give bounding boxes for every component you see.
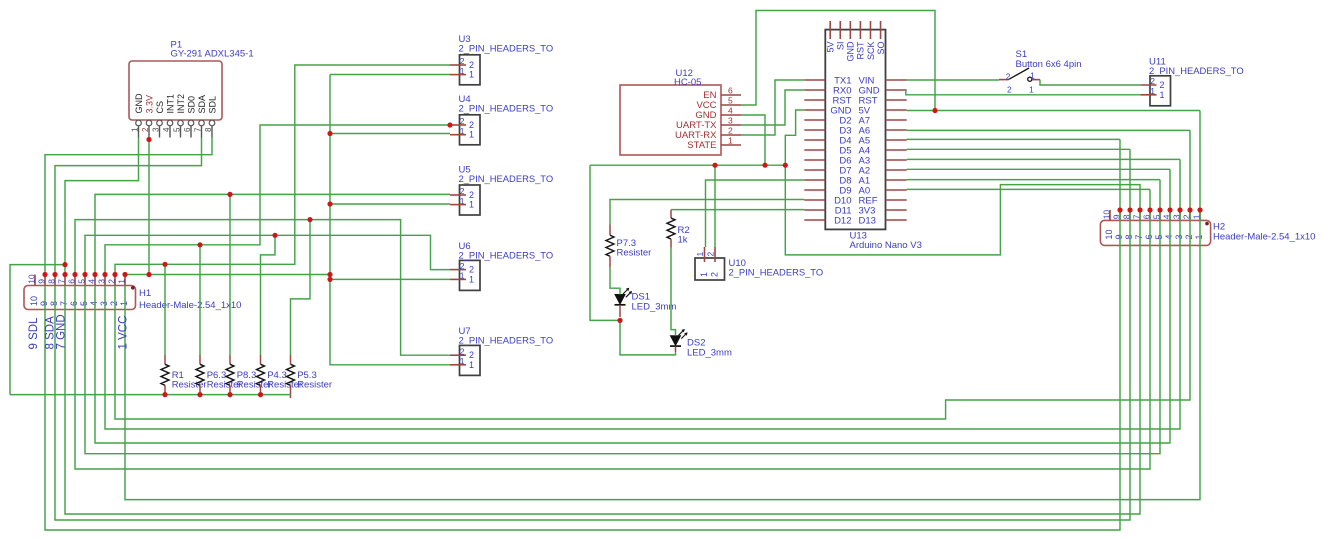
svg-text:Button 6x6 4pin: Button 6x6 4pin: [1016, 59, 1082, 70]
wire bus H1 pin6 to H2 pin6 (A0 net): [75, 189, 1150, 469]
svg-text:4: 4: [1164, 234, 1174, 239]
wire bus H1 pin3 to H2 pin3 (A3 net): [105, 159, 1180, 429]
wire DS1 cathode to DS2 cathode: [620, 320, 676, 355]
connector H1 Header-Male-2.54_1x10 body: [24, 286, 136, 310]
wire D8 row to U10 pin1: [706, 180, 805, 247]
svg-text:1: 1: [1160, 90, 1165, 100]
resistor P6.3: [199, 355, 201, 364]
svg-text:3: 3: [1174, 234, 1184, 239]
svg-text:2: 2: [1150, 76, 1155, 86]
wire A5 row to H2 pin9: [907, 138, 1120, 140]
wire R1 top to H1 pin2 net: [164, 264, 166, 355]
wire bus H1 pin2 to H2 pin2 (A6 net) with step: [115, 130, 1190, 419]
svg-text:9: 9: [39, 301, 49, 306]
svg-text:D12: D12: [834, 215, 851, 226]
svg-text:1: 1: [117, 279, 127, 284]
svg-text:1: 1: [460, 66, 465, 76]
H2 pin 3 stub: [1179, 210, 1181, 220]
junction: [146, 272, 151, 277]
junction: [762, 163, 767, 168]
U13 left pin TX1 stub: [804, 79, 825, 81]
svg-text:8: 8: [47, 279, 57, 284]
svg-text:2_PIN_HEADERS_TO: 2_PIN_HEADERS_TO: [729, 267, 824, 278]
connector U10 2_PIN_HEADERS_TO body: [695, 258, 725, 280]
U13 right pin A5 stub: [886, 139, 907, 141]
svg-text:1: 1: [695, 252, 705, 257]
svg-text:2: 2: [1184, 234, 1194, 239]
wire HC-05 VCC to 5V top bus: [741, 11, 935, 111]
U13 left pin D2 stub: [804, 119, 825, 121]
P1 pin 1 circle and stub: [136, 120, 142, 126]
svg-text:10: 10: [1104, 229, 1114, 239]
junction: [447, 122, 452, 127]
svg-text:1: 1: [469, 70, 474, 80]
U13 top pin SO stub: [880, 21, 882, 39]
junction: [307, 217, 312, 222]
junction H2 pin 2: [1187, 207, 1192, 212]
junction: [102, 272, 107, 277]
U13 right pin D13 stub: [886, 219, 907, 221]
junction H2 pin 5: [1157, 207, 1162, 212]
svg-text:5V: 5V: [826, 42, 836, 53]
junction H2 pin 3: [1177, 207, 1182, 212]
U12 pin 1 STATE stub: [721, 144, 741, 146]
U6 pin 1 stub: [450, 278, 466, 280]
svg-text:GND: GND: [846, 41, 856, 62]
junction: [62, 262, 67, 267]
U10 pin 2 stub: [714, 247, 716, 262]
junction: [146, 137, 151, 142]
wire GND line y=165: [590, 164, 785, 166]
svg-text:9: 9: [1114, 234, 1124, 239]
svg-text:2_PIN_HEADERS_TO: 2_PIN_HEADERS_TO: [459, 335, 554, 346]
wire GND line left drop to LED bottoms: [590, 165, 620, 320]
svg-text:GND: GND: [134, 93, 144, 114]
H1 pin 2 stub: [114, 275, 116, 286]
junction H2 pin 7: [1137, 207, 1142, 212]
svg-text:2: 2: [1160, 80, 1165, 90]
junction: [162, 392, 167, 397]
junction: [783, 163, 788, 168]
svg-text:7: 7: [1134, 234, 1144, 239]
svg-text:6: 6: [67, 279, 77, 284]
svg-text:3: 3: [99, 301, 109, 306]
H1 pin 10 stub: [34, 275, 36, 286]
svg-text:1: 1: [1029, 84, 1034, 94]
wire P1 pin1 GND to H1 pin7: [65, 138, 139, 275]
svg-text:5: 5: [77, 279, 87, 284]
svg-text:2: 2: [469, 190, 474, 200]
svg-text:1: 1: [1030, 70, 1035, 80]
wire D11 row to R2: [671, 209, 804, 211]
svg-text:SI: SI: [836, 42, 846, 51]
svg-text:1: 1: [469, 274, 474, 284]
svg-text:2: 2: [709, 272, 719, 277]
wire P5.3 top jog to H1 pin6 net: [291, 220, 311, 355]
svg-text:STATE: STATE: [687, 140, 716, 151]
U13 right pin A0 stub: [886, 189, 907, 191]
wire R2 bottom to DS2 anode: [671, 248, 676, 336]
junction H2 pin 8: [1127, 207, 1132, 212]
svg-text:Resister: Resister: [297, 379, 332, 390]
wire U3 pin1: [330, 74, 450, 76]
svg-text:2_PIN_HEADERS_TO: 2_PIN_HEADERS_TO: [459, 103, 554, 114]
svg-text:1: 1: [460, 271, 465, 281]
svg-text:HC-05: HC-05: [674, 77, 701, 88]
wire H1 pin3 to U4 pin2: [105, 125, 450, 275]
junction: [42, 272, 47, 277]
wire VIN row to S1: [907, 79, 999, 81]
H2 pin 2 stub: [1189, 210, 1191, 220]
svg-text:2: 2: [728, 126, 733, 136]
svg-text:8: 8: [1124, 234, 1134, 239]
H1 pin 6 stub: [74, 275, 76, 286]
junction: [82, 272, 87, 277]
U5 pin 1 stub: [450, 204, 466, 206]
P1 pin 6 circle and stub: [188, 120, 194, 126]
U12 pin 3 UART-TX stub: [721, 124, 741, 126]
wire resistor-row GND bus to R1..P5.3: [10, 394, 291, 396]
wire bus H1 pin8 to H2 pin8 (A4 net): [55, 149, 1130, 520]
svg-text:6: 6: [728, 86, 733, 96]
U13 right pin VIN stub: [886, 79, 907, 81]
connector U11 2_PIN_HEADERS_TO body: [1150, 76, 1171, 106]
svg-text:2: 2: [706, 252, 716, 257]
svg-text:2: 2: [1006, 71, 1011, 81]
svg-text:1: 1: [119, 301, 129, 306]
wire A2 row to H2 pin4: [907, 168, 1170, 170]
svg-text:Header-Male-2.54_1x10: Header-Male-2.54_1x10: [139, 300, 241, 311]
module U12 HC-05 body: [620, 85, 721, 155]
switch S1 Button 6x6 4pin: [999, 79, 1009, 81]
svg-text:2: 2: [469, 265, 474, 275]
junction: [712, 163, 717, 168]
resistor P8.3: [229, 355, 231, 364]
wire to U6 pin1: [330, 278, 450, 280]
wire U13 GND left jog down to GND line: [785, 110, 804, 165]
svg-text:1: 1: [728, 136, 733, 146]
junction: [52, 272, 57, 277]
svg-text:1: 1: [1194, 234, 1204, 239]
U13 right pin 3V3 stub: [886, 209, 907, 211]
U4 pin 1 stub: [450, 134, 466, 136]
wire bus H1 pin9 to H2 pin9 (A5 net): [45, 139, 1120, 530]
junction H2 pin 1: [1197, 207, 1202, 212]
wire H1 pin5 to U6 pin2: [85, 235, 450, 274]
wire H1 pin1 VCC right along pins-top: [125, 274, 330, 276]
U3 pin 2 stub: [450, 64, 466, 66]
U13 top pin RST stub: [859, 21, 861, 39]
U13 top pin GND stub: [849, 21, 851, 39]
U12 pin 5 VCC stub: [721, 104, 741, 106]
U13 top pin 5V stub: [829, 21, 831, 39]
junction: [112, 272, 117, 277]
wire bus H1 pin4 to H2 pin4 (A2 net): [95, 169, 1170, 443]
wire U5 pin1: [330, 203, 450, 205]
wire H1 pin6 to U7 pin2: [75, 220, 450, 356]
svg-text:SD0: SD0: [187, 96, 197, 114]
svg-text:GY-291 ADXL345-1: GY-291 ADXL345-1: [171, 49, 254, 60]
connector U3 2_PIN_HEADERS_TO body: [460, 55, 481, 85]
svg-text:9: 9: [37, 279, 47, 284]
svg-text:1: 1: [460, 196, 465, 206]
wire A0 row to H2 pin6: [907, 188, 1150, 190]
svg-text:5: 5: [79, 301, 89, 306]
wire P1 pin2 3.3V down to H1 pins-top line: [148, 138, 150, 275]
wire HC-05 UART-RX to TX1: [741, 80, 804, 135]
wire U4 pin1: [330, 133, 450, 135]
svg-text:LED_3mm: LED_3mm: [632, 302, 677, 313]
svg-text:2: 2: [469, 60, 474, 70]
resistor R1: [164, 355, 166, 364]
wire HC-05 GND down to GND line: [741, 115, 765, 165]
wire P1 pin7 SDA to H1 pin8: [55, 138, 202, 275]
svg-text:10: 10: [1102, 210, 1112, 220]
U13 right pin A2 stub: [886, 169, 907, 171]
svg-text:Arduino Nano V3: Arduino Nano V3: [850, 240, 922, 251]
junction: [932, 108, 937, 113]
H2 pin 4 stub: [1169, 210, 1171, 220]
wire bus vertical x=330 U3/U4/U5/U7 pin1 net: [330, 75, 450, 365]
U11 pin 2 stub: [1140, 84, 1156, 86]
svg-text:7 GND: 7 GND: [56, 314, 68, 349]
svg-text:7: 7: [59, 301, 69, 306]
H1 pin 9 stub: [44, 275, 46, 286]
svg-text:3: 3: [97, 279, 107, 284]
connector H2 Header-Male-2.54_1x10 body: [1100, 220, 1210, 245]
svg-text:1: 1: [1150, 86, 1155, 96]
H1 pin 4 stub: [94, 275, 96, 286]
svg-text:8: 8: [49, 301, 59, 306]
junction: [72, 272, 77, 277]
svg-text:2: 2: [469, 120, 474, 130]
U12 pin 6 EN stub: [721, 94, 741, 96]
wire A6 row to H2 pin2: [907, 129, 1190, 131]
svg-text:2: 2: [107, 279, 117, 284]
junction: [272, 233, 277, 238]
P5.3 bottom stub below bus: [290, 395, 292, 398]
U13 top pin SCK stub: [869, 21, 871, 39]
H2 pin 5 stub: [1159, 210, 1161, 220]
svg-text:2_PIN_HEADERS_TO: 2_PIN_HEADERS_TO: [459, 43, 554, 54]
junction: [227, 392, 232, 397]
U13 left pin RST stub: [804, 99, 825, 101]
U13 right pin REF stub: [886, 199, 907, 201]
U13 left pin D10 stub: [804, 199, 825, 201]
svg-text:Header-Male-2.54_1x10: Header-Male-2.54_1x10: [1213, 232, 1315, 243]
svg-text:1: 1: [460, 126, 465, 136]
svg-text:6: 6: [69, 301, 79, 306]
svg-text:2: 2: [460, 346, 465, 356]
svg-text:1: 1: [460, 356, 465, 366]
P1 pin 3 circle and stub: [157, 120, 163, 126]
U13 left pin GND stub: [804, 109, 825, 111]
svg-text:SO: SO: [876, 42, 886, 55]
wire P8.3 top to H1 pin4 net: [229, 194, 231, 355]
junction: [197, 242, 202, 247]
svg-text:1: 1: [469, 200, 474, 210]
H2 pin 9 stub: [1119, 210, 1121, 220]
junction: [162, 262, 167, 267]
U13 right pin A4 stub: [886, 149, 907, 151]
module P1 GY-291 ADXL345-1 body: [129, 61, 222, 120]
U13 right pin A1 stub: [886, 179, 907, 181]
H2 pin 6 stub: [1149, 210, 1151, 220]
wire A1 row to H2 pin5: [907, 179, 1160, 181]
H1 pin 1 marker dot: [131, 286, 135, 290]
junction: [617, 318, 622, 323]
led DS2 LED_3mm: [671, 336, 681, 346]
wire bus H1 pin1 to H2 pin1 (VCC net): [125, 111, 1200, 500]
connector U4 2_PIN_HEADERS_TO body: [460, 115, 481, 145]
P1 pin 2 circle and stub: [146, 120, 152, 126]
wire P6.3 top to H1 pin3 net: [199, 245, 201, 355]
U13 left pin D8 stub: [804, 179, 825, 181]
svg-text:1: 1: [469, 360, 474, 370]
resistor P5.3: [290, 355, 292, 364]
U13 left pin D4 stub: [804, 139, 825, 141]
U3 pin 1 stub: [450, 74, 466, 76]
U11 pin 1 stub: [1140, 94, 1156, 96]
wire A4 row to H2 pin8: [907, 148, 1130, 150]
svg-text:1: 1: [699, 272, 709, 277]
U13 left pin RX0 stub: [804, 89, 825, 91]
svg-text:10: 10: [29, 296, 39, 306]
svg-text:4: 4: [89, 301, 99, 306]
svg-text:2_PIN_HEADERS_TO: 2_PIN_HEADERS_TO: [459, 173, 554, 184]
wire H1 pin4 to U5 pin2: [95, 194, 450, 274]
svg-text:2: 2: [460, 186, 465, 196]
U10 pin 1 stub: [704, 247, 706, 262]
wire S1 to U11 pin2: [1040, 80, 1140, 85]
svg-text:2: 2: [469, 350, 474, 360]
connector U7 2_PIN_HEADERS_TO body: [460, 345, 481, 375]
junction H2 pin 9: [1117, 207, 1122, 212]
svg-text:5: 5: [728, 96, 733, 106]
svg-text:SDA: SDA: [197, 95, 207, 114]
svg-text:4: 4: [87, 279, 97, 284]
resistor R2: [670, 210, 672, 218]
U13 right pin A3 stub: [886, 159, 907, 161]
wire P1 pin8 SDL to H1 pin9: [45, 138, 212, 275]
svg-text:2: 2: [460, 261, 465, 271]
svg-text:4: 4: [728, 106, 733, 116]
svg-text:2_PIN_HEADERS_TO: 2_PIN_HEADERS_TO: [1149, 65, 1244, 76]
U13 left pin D6 stub: [804, 159, 825, 161]
junction: [92, 272, 97, 277]
U13 right pin A6 stub: [886, 129, 907, 131]
wire P4.3 top jog to H1 pin5 net: [261, 235, 276, 355]
junction H2 pin 4: [1167, 207, 1172, 212]
U13 left pin D11 stub: [804, 209, 825, 211]
wire H1 pin2 to U3 pin2: [115, 65, 450, 275]
svg-text:H1: H1: [139, 288, 151, 299]
svg-text:RST: RST: [856, 41, 866, 60]
H2 pin 1 marker dot: [1205, 222, 1209, 226]
junction: [327, 272, 332, 277]
svg-text:2: 2: [1007, 85, 1012, 95]
mcu U13 Arduino Nano V3 body: [825, 30, 885, 230]
junction: [122, 272, 127, 277]
H2 pin 10 stub: [1109, 210, 1111, 220]
svg-text:D13: D13: [859, 215, 876, 226]
svg-text:LED_3mm: LED_3mm: [687, 348, 732, 359]
svg-text:2: 2: [109, 301, 119, 306]
junction: [197, 392, 202, 397]
P1 pin 8 circle and stub: [209, 120, 215, 126]
svg-text:SCK: SCK: [866, 42, 876, 61]
U6 pin 2 stub: [450, 269, 466, 271]
U7 pin 2 stub: [450, 354, 466, 356]
junction: [258, 392, 263, 397]
svg-text:1: 1: [469, 130, 474, 140]
junction H2 pin 6: [1147, 207, 1152, 212]
H1 pin 1 stub: [124, 275, 126, 286]
junction: [62, 272, 67, 277]
wire bus H1 pin5 to H2 pin5 (A1 net): [85, 180, 1160, 454]
svg-text:7: 7: [57, 279, 67, 284]
junction: [327, 277, 332, 282]
H1 pin 3 stub: [104, 275, 106, 286]
U13 top pin SI stub: [839, 21, 841, 39]
U13 left pin D12 stub: [804, 219, 825, 221]
H1 pin 5 stub: [84, 275, 86, 286]
svg-text:INT2: INT2: [176, 94, 186, 114]
wire U13 GND right step to U11 pin1: [905, 91, 1140, 95]
U13 right pin RST stub: [886, 99, 907, 101]
svg-text:3.3V: 3.3V: [145, 95, 155, 114]
junction: [327, 131, 332, 136]
svg-text:2_PIN_HEADERS_TO: 2_PIN_HEADERS_TO: [459, 250, 554, 261]
junction: [327, 201, 332, 206]
svg-text:Resister: Resister: [617, 248, 652, 259]
U13 right pin A7 stub: [886, 119, 907, 121]
wire 5V row to H2 pin1: [907, 110, 1200, 112]
svg-text:CS: CS: [155, 101, 165, 114]
U12 pin 2 UART-RX stub: [721, 134, 741, 136]
connector U5 2_PIN_HEADERS_TO body: [460, 185, 481, 215]
U13 left pin D5 stub: [804, 149, 825, 151]
connector U6 2_PIN_HEADERS_TO body: [460, 260, 481, 290]
resistor P4.3: [260, 355, 262, 364]
svg-text:3: 3: [728, 116, 733, 126]
svg-text:2: 2: [460, 116, 465, 126]
U13 left pin D9 stub: [804, 189, 825, 191]
U13 right pin 5V stub: [886, 109, 907, 111]
wire bus H1 pin7 to H2 pin7 (GND net): [65, 165, 1140, 514]
wire HC-05 UART-TX to RX0: [741, 90, 804, 125]
svg-text:INT1: INT1: [166, 94, 176, 114]
U13 left pin D3 stub: [804, 129, 825, 131]
P1 pin 7 circle and stub: [199, 120, 205, 126]
P1 pin 5 circle and stub: [178, 120, 184, 126]
svg-text:2: 2: [460, 56, 465, 66]
U4 pin 2 stub: [450, 124, 466, 126]
svg-text:1k: 1k: [678, 235, 688, 246]
P1 pin 4 circle and stub: [167, 120, 173, 126]
U5 pin 2 stub: [450, 194, 466, 196]
H1 pin 7 stub: [64, 275, 66, 286]
svg-text:1 VCC: 1 VCC: [118, 316, 130, 350]
svg-text:SDL: SDL: [208, 96, 218, 114]
H1 pin 8 stub: [54, 275, 56, 286]
resistor P7.3: [609, 225, 611, 236]
led DS1 LED_3mm: [615, 295, 625, 305]
H2 pin 7 stub: [1139, 210, 1141, 220]
U13 left pin D7 stub: [804, 169, 825, 171]
junction: [227, 192, 232, 197]
U7 pin 1 stub: [450, 364, 466, 366]
